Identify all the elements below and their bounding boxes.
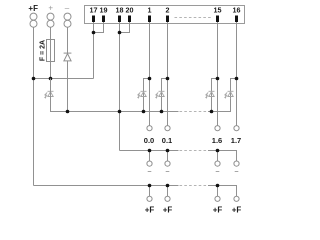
channel 2 LED branch xyxy=(162,79,168,112)
+F terminal circle 0.1 xyxy=(165,196,170,201)
minus terminal circle 0.0 xyxy=(147,161,152,166)
svg-text:1.7: 1.7 xyxy=(231,136,241,145)
channel 16 LED xyxy=(225,91,234,98)
+F terminal circle 1.7 xyxy=(234,196,239,201)
wire +F vertical xyxy=(33,27,35,185)
terminal circles +F column xyxy=(30,13,37,27)
output circle channel 1.7 xyxy=(234,126,239,131)
channel 2 junction dot xyxy=(166,77,170,81)
+F output rail right section xyxy=(208,186,237,197)
minus polarity mark 0.0 xyxy=(148,171,152,173)
svg-text:+F: +F xyxy=(232,205,242,214)
minus output rail xyxy=(120,150,179,152)
wire + vertical through fuse xyxy=(50,27,52,78)
minus rail dot 0.0 xyxy=(148,149,152,153)
dashed continuation inside box xyxy=(175,17,213,19)
terminal strip box xyxy=(85,6,245,24)
channel 2 wire xyxy=(167,22,169,126)
terminal circles + column xyxy=(47,13,54,27)
svg-text:18: 18 xyxy=(116,5,124,14)
svg-text:17: 17 xyxy=(90,5,98,14)
channel 16 LED branch xyxy=(231,79,237,99)
svg-text:–: – xyxy=(65,3,70,12)
channel 15 LED branch xyxy=(212,79,218,112)
minus terminal circle 1.7 xyxy=(234,161,239,166)
pin 15 contact xyxy=(216,16,219,23)
svg-text:2: 2 xyxy=(166,5,170,14)
junction dot 18/20 xyxy=(118,31,122,35)
output circle channel 0.1 xyxy=(165,126,170,131)
minus rail dot 1.6 xyxy=(216,149,220,153)
wire - vertical upper xyxy=(67,27,69,53)
+F rail dot 0.0 xyxy=(148,184,152,188)
pin 18 contact xyxy=(118,16,121,23)
minus stub 0.1 xyxy=(167,151,169,162)
svg-text:+F: +F xyxy=(28,4,38,13)
pin 16 contact xyxy=(235,16,238,23)
diode D1 xyxy=(64,53,72,61)
minus rail right section xyxy=(208,98,231,111)
junction dot 18/20 wire / minus rail xyxy=(118,110,122,114)
svg-text:+F: +F xyxy=(213,205,223,214)
pin 17 contact xyxy=(92,16,95,23)
svg-text:F = 2A: F = 2A xyxy=(39,40,46,61)
junction dot + / supply rail xyxy=(49,77,53,81)
channel 15 wire xyxy=(217,22,219,126)
terminal circles - column xyxy=(64,13,71,27)
supply rail xyxy=(34,78,94,80)
minus stub 0.0 xyxy=(149,151,151,162)
svg-text:1: 1 xyxy=(148,5,152,14)
minus polarity mark 1.6 xyxy=(216,171,220,173)
minus polarity mark 0.1 xyxy=(166,171,170,173)
output circle channel 1.6 xyxy=(215,126,220,131)
minus terminal circle 0.1 xyxy=(165,161,170,166)
svg-text:+F: +F xyxy=(145,205,155,214)
+F terminal circle 0.0 xyxy=(147,196,152,201)
pin 1 contact xyxy=(148,16,151,23)
jumper wire 19 to 17 xyxy=(94,22,104,33)
channel 1 junction dot xyxy=(148,77,152,81)
+F rail dot 1.6 xyxy=(216,184,220,188)
svg-text:+: + xyxy=(48,3,53,12)
channel 15 LED xyxy=(206,91,215,98)
+F stub 0.0 xyxy=(149,186,151,197)
minus polarity mark 1.7 xyxy=(235,171,239,173)
minus rail left section xyxy=(51,79,179,112)
+F stub 0.1 xyxy=(167,186,169,197)
minus output rail right section xyxy=(208,151,237,162)
svg-text:1.6: 1.6 xyxy=(212,136,222,145)
minus terminal circle 1.6 xyxy=(215,161,220,166)
channel 2 branch dot on minus rail xyxy=(160,110,164,114)
fuse F=2A xyxy=(47,40,55,62)
svg-text:+F: +F xyxy=(163,205,173,214)
output circle channel 0.0 xyxy=(147,126,152,131)
channel 16 wire xyxy=(236,22,238,126)
junction dot +F / supply rail xyxy=(32,77,36,81)
channel 1 LED xyxy=(138,91,147,98)
svg-text:20: 20 xyxy=(126,5,134,14)
svg-text:16: 16 xyxy=(233,5,241,14)
wire - below diode xyxy=(67,61,69,112)
+F terminal circle 1.6 xyxy=(215,196,220,201)
power LED xyxy=(45,91,54,98)
minus stub 1.6 xyxy=(217,151,219,162)
channel 15 junction dot xyxy=(216,77,220,81)
jumper wire 20 to 18 xyxy=(120,22,130,33)
pin 2 contact xyxy=(166,16,169,23)
+F stub 1.6 xyxy=(217,186,219,197)
+F output rail dashed gap xyxy=(180,185,209,187)
channel 15 branch dot on minus rail xyxy=(210,110,214,114)
wire from pins 17/19 down xyxy=(93,22,95,79)
pin 19 contact xyxy=(102,16,105,23)
+F rail dot 0.1 xyxy=(166,184,170,188)
channel 1 LED branch xyxy=(144,79,150,112)
svg-text:15: 15 xyxy=(214,5,222,14)
channel 2 LED xyxy=(156,91,165,98)
minus rail dashed gap xyxy=(180,111,209,113)
junction dot - wire / minus rail xyxy=(66,110,70,114)
svg-text:19: 19 xyxy=(100,5,108,14)
svg-text:0.0: 0.0 xyxy=(144,136,154,145)
wire from pins 18/20 down xyxy=(119,22,121,151)
junction dot 17/19 xyxy=(92,31,96,35)
channel 1 wire xyxy=(149,22,151,126)
svg-text:0.1: 0.1 xyxy=(162,136,172,145)
minus output rail dashed gap xyxy=(180,150,209,152)
+F output rail xyxy=(34,185,179,187)
minus rail dot 0.1 xyxy=(166,149,170,153)
pin 20 contact xyxy=(128,16,131,23)
channel 16 junction dot xyxy=(235,77,239,81)
channel 1 branch dot on minus rail xyxy=(142,110,146,114)
